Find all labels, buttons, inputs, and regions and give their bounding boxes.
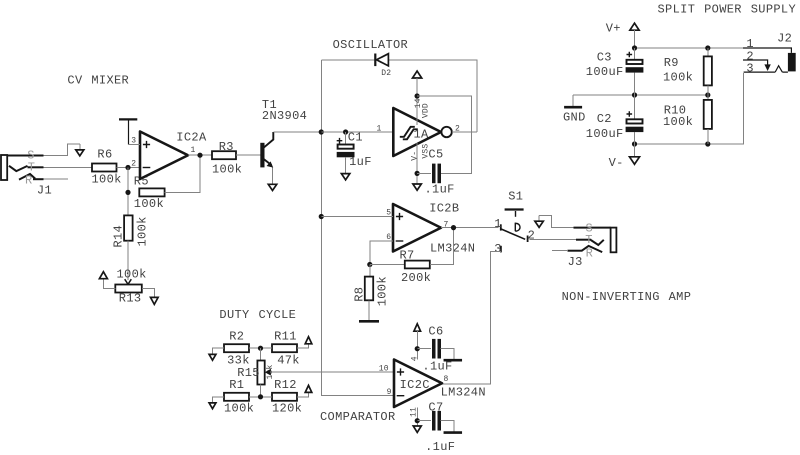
svg-text:R11: R11 [274, 329, 297, 343]
svg-text:OSCILLATOR: OSCILLATOR [333, 38, 409, 52]
svg-text:100k: 100k [376, 276, 390, 306]
svg-text:100k: 100k [663, 115, 693, 129]
svg-text:1uF: 1uF [349, 155, 372, 169]
svg-text:47k: 47k [277, 353, 300, 367]
svg-text:1: 1 [494, 217, 502, 231]
svg-text:R6: R6 [97, 148, 112, 162]
svg-text:R: R [25, 174, 33, 188]
svg-text:R1: R1 [229, 378, 244, 392]
svg-text:3: 3 [746, 62, 754, 76]
svg-text:LM324N: LM324N [441, 386, 486, 400]
svg-text:2N3904: 2N3904 [262, 109, 307, 123]
svg-text:NON-INVERTING AMP: NON-INVERTING AMP [562, 290, 692, 304]
svg-text:10: 10 [379, 364, 389, 373]
svg-text:C2: C2 [597, 112, 612, 126]
svg-text:R7: R7 [400, 249, 415, 263]
svg-text:V-: V- [411, 151, 420, 161]
svg-text:J3: J3 [568, 255, 583, 269]
svg-text:V+: V+ [606, 22, 621, 36]
svg-text:100uF: 100uF [586, 65, 624, 79]
svg-text:R12: R12 [274, 378, 297, 392]
svg-text:S1: S1 [508, 190, 523, 204]
svg-text:SPLIT POWER SUPPLY: SPLIT POWER SUPPLY [658, 3, 797, 17]
svg-text:100k: 100k [663, 71, 693, 85]
svg-text:J2: J2 [777, 31, 792, 45]
svg-text:V-: V- [609, 156, 624, 170]
svg-text:T: T [28, 160, 36, 174]
svg-text:R8: R8 [353, 287, 367, 302]
svg-text:R2: R2 [229, 329, 244, 343]
svg-text:2: 2 [131, 160, 136, 169]
svg-text:1: 1 [191, 146, 196, 155]
svg-text:1A: 1A [414, 127, 430, 141]
svg-text:J1: J1 [37, 183, 52, 197]
svg-text:IC2B: IC2B [429, 201, 459, 215]
svg-text:11: 11 [409, 407, 418, 417]
svg-text:R14: R14 [112, 225, 126, 248]
svg-text:R3: R3 [219, 140, 234, 154]
svg-text:100k: 100k [117, 267, 147, 281]
svg-text:C6: C6 [428, 324, 443, 338]
svg-text:COMPARATOR: COMPARATOR [320, 410, 396, 424]
svg-text:.1uF: .1uF [425, 440, 455, 454]
svg-text:DUTY CYCLE: DUTY CYCLE [219, 308, 296, 322]
svg-text:100k: 100k [134, 197, 164, 211]
svg-text:D2: D2 [381, 69, 391, 78]
svg-text:100k: 100k [135, 216, 149, 246]
svg-text:IC2C: IC2C [400, 378, 430, 392]
svg-text:3: 3 [494, 242, 502, 256]
svg-text:R13: R13 [119, 292, 142, 306]
svg-text:T: T [585, 233, 593, 247]
svg-text:.1uF: .1uF [422, 360, 452, 374]
svg-text:CV MIXER: CV MIXER [67, 74, 129, 88]
svg-text:100uF: 100uF [586, 127, 624, 141]
svg-text:LM324N: LM324N [430, 241, 475, 255]
svg-text:120k: 120k [272, 402, 302, 416]
svg-text:C5: C5 [428, 148, 443, 162]
svg-text:IC2A: IC2A [176, 131, 207, 145]
svg-text:R: R [586, 247, 594, 261]
svg-text:200k: 200k [401, 271, 431, 285]
svg-text:VDD: VDD [422, 103, 431, 118]
svg-text:100k: 100k [212, 162, 242, 176]
svg-text:1: 1 [377, 124, 382, 133]
svg-text:C1: C1 [348, 131, 363, 145]
svg-text:GND: GND [563, 110, 586, 124]
svg-text:9: 9 [387, 388, 392, 397]
svg-text:100k: 100k [224, 402, 254, 416]
svg-text:C7: C7 [428, 400, 443, 414]
svg-text:8: 8 [444, 375, 449, 384]
svg-text:C3: C3 [597, 50, 612, 64]
svg-text:2: 2 [528, 229, 536, 243]
svg-text:100k: 100k [92, 172, 122, 186]
svg-text:4: 4 [410, 356, 419, 361]
svg-text:R9: R9 [664, 56, 679, 70]
svg-text:.1uF: .1uF [425, 183, 455, 197]
